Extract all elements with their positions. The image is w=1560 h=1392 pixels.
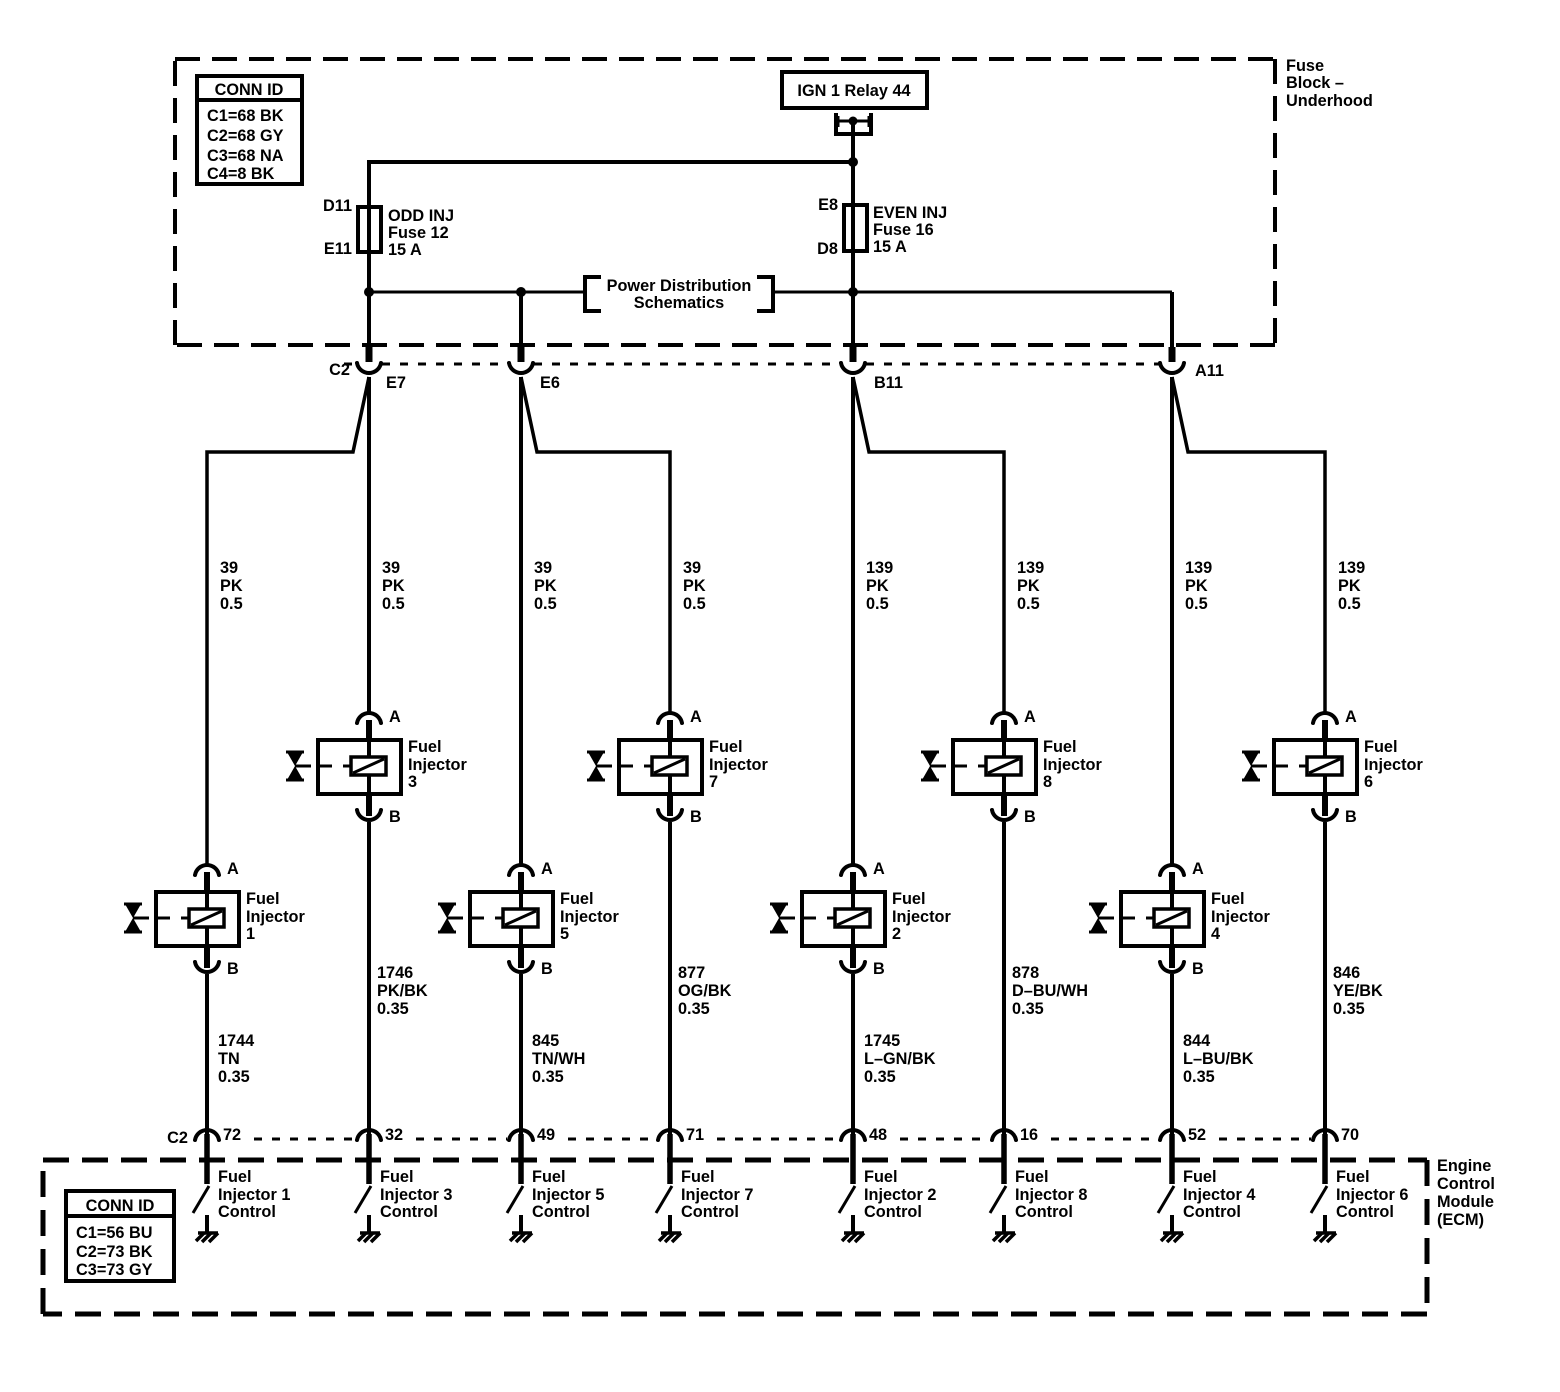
wire injector 4 control to ECM	[1170, 974, 1174, 1136]
ground (injector 7 driver)	[659, 1233, 681, 1242]
injector 4 driver lower contact	[1170, 1215, 1174, 1233]
svg-text:E7: E7	[386, 374, 406, 392]
svg-text:CONN ID: CONN ID	[215, 81, 284, 99]
fuse F16 EVEN INJ 15A	[817, 196, 947, 258]
wire label 877 OG/BK 0.35	[678, 964, 732, 1018]
svg-text:C4=8 BK: C4=8 BK	[207, 165, 275, 183]
label Engine Control Module (ECM)	[1437, 1157, 1495, 1229]
svg-text:0.35: 0.35	[532, 1068, 564, 1086]
wire label 139 PK 0.5 (col 6)	[1017, 559, 1044, 613]
svg-text:A: A	[389, 708, 401, 726]
svg-text:1746: 1746	[377, 964, 413, 982]
svg-text:E11: E11	[324, 240, 352, 258]
svg-text:Control: Control	[1015, 1203, 1073, 1221]
wire label 845 TN/WH 0.35	[532, 1032, 585, 1086]
svg-text:Control: Control	[380, 1203, 438, 1221]
svg-text:Control: Control	[681, 1203, 739, 1221]
wire B11 to injector 2	[851, 377, 855, 866]
fuel injector 3 name label	[408, 738, 467, 791]
svg-text:39: 39	[220, 559, 238, 577]
power distribution schematics reference brackets	[585, 277, 773, 312]
svg-text:C2: C2	[329, 361, 350, 379]
svg-text:877: 877	[678, 964, 705, 982]
fuel injector 7 pin A label	[690, 708, 702, 726]
svg-text:EVEN INJ: EVEN INJ	[873, 204, 947, 222]
svg-text:A: A	[873, 860, 885, 878]
svg-text:B: B	[389, 808, 401, 826]
wire label 1745 L–GN/BK 0.35	[864, 1032, 936, 1086]
svg-text:3: 3	[408, 773, 417, 791]
fuel injector 6 pin B label	[1345, 808, 1357, 826]
wire branch E7 to injector 1 column	[207, 377, 369, 866]
wire branch A11 to injector 6 column	[1172, 377, 1325, 714]
fuel injector 5 valve symbol	[438, 904, 463, 932]
svg-text:1745: 1745	[864, 1032, 900, 1050]
svg-text:Injector 2: Injector 2	[864, 1186, 936, 1204]
svg-text:1: 1	[246, 925, 255, 943]
injector 4 driver switch	[1158, 1186, 1174, 1213]
fuel injector 7 valve symbol	[587, 752, 612, 780]
svg-text:Fuel: Fuel	[380, 1168, 413, 1186]
svg-text:B: B	[1192, 960, 1204, 978]
svg-text:Injector: Injector	[408, 756, 467, 774]
fuel injector 8 pin B label	[1024, 808, 1036, 826]
conn id table (fuse block)	[197, 76, 302, 184]
svg-text:72: 72	[223, 1126, 241, 1144]
engine control module dashed border	[43, 1160, 1427, 1314]
fuel injector 3 pin B terminal	[357, 794, 381, 820]
ECM connector terminal pin 70	[1313, 1130, 1337, 1184]
fuel injector 1 valve symbol	[124, 904, 149, 932]
svg-text:L–GN/BK: L–GN/BK	[864, 1050, 936, 1068]
svg-text:C2=73 BK: C2=73 BK	[76, 1243, 153, 1261]
svg-text:0.35: 0.35	[1012, 1000, 1044, 1018]
svg-text:Module: Module	[1437, 1193, 1494, 1211]
svg-text:Fuel: Fuel	[892, 890, 925, 908]
svg-text:Injector 6: Injector 6	[1336, 1186, 1408, 1204]
fuel injector 4 pin B terminal	[1160, 946, 1184, 972]
fuel injector 2 name label	[892, 890, 951, 943]
svg-text:Injector 5: Injector 5	[532, 1186, 604, 1204]
svg-text:B: B	[690, 808, 702, 826]
svg-text:Block –: Block –	[1286, 74, 1344, 92]
wire relay to bus	[851, 121, 855, 292]
svg-text:Fuel: Fuel	[218, 1168, 251, 1186]
pin number 32	[385, 1126, 403, 1144]
wire branch E6 to injector 7 column	[521, 377, 670, 714]
svg-text:TN/WH: TN/WH	[532, 1050, 585, 1068]
pin label A11	[1195, 362, 1224, 380]
injector 7 driver lower contact	[668, 1215, 672, 1233]
fuel injector 7 pin B label	[690, 808, 702, 826]
ECM connector C2 dashed harness line (bottom)	[254, 1138, 1311, 1141]
connector terminal E6	[509, 363, 533, 373]
fuel injector 4 pin A label	[1192, 860, 1204, 878]
wire label 846 YE/BK 0.35	[1333, 964, 1383, 1018]
fuel injector 8 pin A terminal	[992, 713, 1016, 723]
wire drop to connector E6	[519, 292, 523, 362]
fuel injector 4 pin B label	[1192, 960, 1204, 978]
fuel injector 1 pin B label	[227, 960, 239, 978]
svg-text:A: A	[1345, 708, 1357, 726]
svg-text:Power Distribution: Power Distribution	[607, 277, 752, 295]
fuel injector 5 body	[470, 872, 553, 946]
injector 1 driver switch	[193, 1186, 209, 1213]
svg-text:Fuel: Fuel	[864, 1168, 897, 1186]
svg-text:C1=68 BK: C1=68 BK	[207, 107, 284, 125]
svg-text:B11: B11	[874, 374, 903, 392]
svg-text:844: 844	[1183, 1032, 1210, 1050]
fuel injector 2 valve symbol	[770, 904, 795, 932]
fuel injector 1 pin A terminal	[195, 865, 219, 875]
bus wire below fuses (power distribution)	[369, 291, 1172, 294]
svg-text:E8: E8	[818, 196, 838, 214]
svg-text:49: 49	[537, 1126, 555, 1144]
svg-text:0.5: 0.5	[866, 595, 889, 613]
svg-text:B: B	[873, 960, 885, 978]
svg-text:(ECM): (ECM)	[1437, 1211, 1484, 1229]
ground (injector 4 driver)	[1161, 1233, 1183, 1242]
node junction bus/fuse16	[848, 287, 858, 297]
wire label 39 PK 0.5 (col 2)	[382, 559, 405, 613]
wire top feed to fuse 12	[369, 162, 853, 292]
wire injector 3 control to ECM	[367, 822, 371, 1136]
fuel injector 7 body	[619, 720, 702, 794]
svg-text:Injector 3: Injector 3	[380, 1186, 452, 1204]
svg-text:8: 8	[1043, 773, 1052, 791]
svg-text:Injector: Injector	[1043, 756, 1102, 774]
connector C2 dashed harness line (top)	[344, 363, 1159, 366]
fuel injector 6 name label	[1364, 738, 1423, 791]
fuel injector 4 body	[1121, 872, 1204, 946]
svg-text:Engine: Engine	[1437, 1157, 1491, 1175]
svg-text:Control: Control	[1183, 1203, 1241, 1221]
svg-text:YE/BK: YE/BK	[1333, 982, 1383, 1000]
node junction bus/fuse12	[364, 287, 374, 297]
wire injector 8 control to ECM	[1002, 822, 1006, 1136]
wire label 1744 TN 0.35	[218, 1032, 254, 1086]
fuel injector 4 name label	[1211, 890, 1270, 943]
label Fuel Injector 6 Control	[1336, 1168, 1408, 1221]
fuel injector 6 pin B terminal	[1313, 794, 1337, 820]
svg-text:E6: E6	[540, 374, 560, 392]
ECM connector terminal pin 48	[841, 1130, 865, 1184]
fuel injector 3 pin B label	[389, 808, 401, 826]
svg-text:Fuel: Fuel	[709, 738, 742, 756]
ECM connector terminal pin 52	[1160, 1130, 1184, 1184]
svg-text:2: 2	[892, 925, 901, 943]
wire drop to connector E7	[367, 292, 371, 362]
fuel injector 2 body	[802, 872, 885, 946]
svg-text:39: 39	[382, 559, 400, 577]
wire drop to connector A11	[1170, 292, 1174, 362]
label Fuse Block - Underhood	[1286, 57, 1373, 110]
injector 3 driver switch	[355, 1186, 371, 1213]
wire injector 5 control to ECM	[519, 974, 523, 1136]
svg-text:15 A: 15 A	[388, 241, 422, 259]
ground (injector 5 driver)	[510, 1233, 532, 1242]
wire injector 6 control to ECM	[1323, 822, 1327, 1136]
connector terminal A11	[1160, 363, 1184, 373]
svg-text:PK: PK	[534, 577, 557, 595]
svg-text:6: 6	[1364, 773, 1373, 791]
svg-text:B: B	[1345, 808, 1357, 826]
wire injector 1 control to ECM	[205, 974, 209, 1136]
injector 2 driver switch	[839, 1186, 855, 1213]
svg-text:A: A	[227, 860, 239, 878]
pin label E6	[540, 374, 560, 392]
svg-text:0.5: 0.5	[1017, 595, 1040, 613]
fuel injector 2 pin B label	[873, 960, 885, 978]
svg-text:Injector: Injector	[892, 908, 951, 926]
relay K44 IGN 1 Relay 44 label box	[782, 72, 927, 108]
ground (injector 6 driver)	[1314, 1233, 1336, 1242]
fuel injector 8 pin A label	[1024, 708, 1036, 726]
fuel injector 1 pin A label	[227, 860, 239, 878]
svg-text:C3=73 GY: C3=73 GY	[76, 1261, 153, 1279]
fuel injector 5 name label	[560, 890, 619, 943]
svg-text:Fuel: Fuel	[560, 890, 593, 908]
svg-text:PK: PK	[1185, 577, 1208, 595]
svg-text:Injector 1: Injector 1	[218, 1186, 290, 1204]
injector 5 driver switch	[507, 1186, 523, 1213]
injector 6 driver lower contact	[1323, 1215, 1327, 1233]
svg-text:Injector: Injector	[1364, 756, 1423, 774]
svg-text:PK: PK	[1338, 577, 1361, 595]
svg-text:C1=56 BU: C1=56 BU	[76, 1224, 152, 1242]
fuel injector 7 pin A terminal	[658, 713, 682, 723]
fuel injector 4 pin A terminal	[1160, 865, 1184, 875]
label Fuel Injector 3 Control	[380, 1168, 452, 1221]
wire label 1746 PK/BK 0.35	[377, 964, 428, 1018]
fuel injector 1 pin B terminal	[195, 946, 219, 972]
fuel injector 6 pin A label	[1345, 708, 1357, 726]
ECM connector terminal pin 71	[658, 1130, 682, 1184]
ECM connector terminal pin 32	[357, 1130, 381, 1184]
wire A11 to injector 4	[1170, 377, 1174, 866]
svg-text:1744: 1744	[218, 1032, 254, 1050]
label C2 (top connector)	[329, 361, 350, 379]
connector terminal E7	[357, 363, 381, 373]
svg-text:39: 39	[534, 559, 552, 577]
svg-text:0.35: 0.35	[1183, 1068, 1215, 1086]
svg-text:71: 71	[686, 1126, 704, 1144]
svg-text:0.5: 0.5	[1185, 595, 1208, 613]
label Fuel Injector 1 Control	[218, 1168, 290, 1221]
pin label E7	[386, 374, 406, 392]
wire label 39 PK 0.5 (col 3)	[534, 559, 557, 613]
wire label 39 PK 0.5 (col 1)	[220, 559, 243, 613]
svg-text:Fuel: Fuel	[1336, 1168, 1369, 1186]
fuel injector 3 pin A label	[389, 708, 401, 726]
svg-text:139: 139	[1017, 559, 1044, 577]
label Fuel Injector 5 Control	[532, 1168, 604, 1221]
svg-text:Control: Control	[1336, 1203, 1394, 1221]
fuel injector 2 pin A label	[873, 860, 885, 878]
svg-text:139: 139	[1185, 559, 1212, 577]
conn id table (ECM)	[66, 1191, 174, 1281]
svg-text:52: 52	[1188, 1126, 1206, 1144]
svg-text:PK/BK: PK/BK	[377, 982, 428, 1000]
fuel injector 5 pin A terminal	[509, 865, 533, 875]
svg-text:Fuel: Fuel	[1183, 1168, 1216, 1186]
svg-text:TN: TN	[218, 1050, 240, 1068]
pin number 48	[869, 1126, 887, 1144]
fuel injector 5 pin B label	[541, 960, 553, 978]
svg-text:Injector: Injector	[246, 908, 305, 926]
fuel injector 2 pin A terminal	[841, 865, 865, 875]
svg-text:Fuel: Fuel	[681, 1168, 714, 1186]
fuel injector 1 body	[156, 872, 239, 946]
svg-text:Fuel: Fuel	[1211, 890, 1244, 908]
pin number 70	[1341, 1126, 1359, 1144]
svg-text:B: B	[1024, 808, 1036, 826]
injector 2 driver lower contact	[851, 1215, 855, 1233]
svg-text:C2=68 GY: C2=68 GY	[207, 127, 284, 145]
wire E6 to injector 5	[519, 377, 523, 866]
fuel injector 8 name label	[1043, 738, 1102, 791]
ECM connector terminal pin 49	[509, 1130, 533, 1184]
label Fuel Injector 8 Control	[1015, 1168, 1087, 1221]
svg-text:32: 32	[385, 1126, 403, 1144]
svg-text:Underhood: Underhood	[1286, 92, 1373, 110]
injector 6 driver switch	[1311, 1186, 1327, 1213]
fuel injector 4 valve symbol	[1089, 904, 1114, 932]
ground (injector 8 driver)	[993, 1233, 1015, 1242]
label Fuel Injector 2 Control	[864, 1168, 936, 1221]
fuse block underhood dashed border	[175, 59, 1275, 345]
ground (injector 1 driver)	[196, 1233, 218, 1242]
wire branch B11 to injector 8 column	[853, 377, 1004, 714]
svg-text:C3=68 NA: C3=68 NA	[207, 147, 284, 165]
wire injector 7 control to ECM	[668, 822, 672, 1136]
pin number 16	[1020, 1126, 1038, 1144]
svg-text:B: B	[541, 960, 553, 978]
svg-text:0.35: 0.35	[377, 1000, 409, 1018]
svg-text:7: 7	[709, 773, 718, 791]
injector 5 driver lower contact	[519, 1215, 523, 1233]
pin number 52	[1188, 1126, 1206, 1144]
svg-text:845: 845	[532, 1032, 559, 1050]
ground (injector 3 driver)	[358, 1233, 380, 1242]
injector 3 driver lower contact	[367, 1215, 371, 1233]
svg-text:0.35: 0.35	[1333, 1000, 1365, 1018]
pin number 72	[223, 1126, 241, 1144]
wire drop to connector B11	[851, 292, 855, 362]
fuel injector 8 pin B terminal	[992, 794, 1016, 820]
svg-text:Control: Control	[218, 1203, 276, 1221]
svg-text:39: 39	[683, 559, 701, 577]
svg-text:70: 70	[1341, 1126, 1359, 1144]
fuel injector 6 valve symbol	[1242, 752, 1267, 780]
svg-text:Schematics: Schematics	[634, 294, 725, 312]
svg-text:Injector: Injector	[560, 908, 619, 926]
injector 8 driver switch	[990, 1186, 1006, 1213]
svg-text:0.5: 0.5	[220, 595, 243, 613]
svg-text:0.5: 0.5	[534, 595, 557, 613]
svg-text:Fuel: Fuel	[532, 1168, 565, 1186]
svg-text:48: 48	[869, 1126, 887, 1144]
svg-text:4: 4	[1211, 925, 1220, 943]
wire label 139 PK 0.5 (col 7)	[1185, 559, 1212, 613]
svg-text:Fuse 12: Fuse 12	[388, 224, 449, 242]
wire label 39 PK 0.5 (col 4)	[683, 559, 706, 613]
svg-text:Injector: Injector	[709, 756, 768, 774]
fuel injector 6 pin A terminal	[1313, 713, 1337, 723]
relay K44 contact symbol	[836, 113, 871, 134]
injector 8 driver lower contact	[1002, 1215, 1006, 1233]
svg-text:Fuel: Fuel	[1015, 1168, 1048, 1186]
ECM connector terminal pin 16	[992, 1130, 1016, 1184]
svg-text:Control: Control	[864, 1203, 922, 1221]
svg-text:Fuse: Fuse	[1286, 57, 1324, 75]
wire injector 2 control to ECM	[851, 974, 855, 1136]
wire label 139 PK 0.5 (col 5)	[866, 559, 893, 613]
pin label B11	[874, 374, 903, 392]
svg-text:A: A	[1192, 860, 1204, 878]
svg-text:0.35: 0.35	[678, 1000, 710, 1018]
svg-text:Injector 7: Injector 7	[681, 1186, 753, 1204]
svg-text:PK: PK	[1017, 577, 1040, 595]
svg-text:A: A	[690, 708, 702, 726]
svg-text:B: B	[227, 960, 239, 978]
svg-text:PK: PK	[866, 577, 889, 595]
fuel injector 3 pin A terminal	[357, 713, 381, 723]
fuel injector 5 pin B terminal	[509, 946, 533, 972]
fuse F12 ODD INJ 15A	[323, 197, 454, 259]
fuel injector 5 pin A label	[541, 860, 553, 878]
fuel injector 7 pin B terminal	[658, 794, 682, 820]
fuel injector 2 pin B terminal	[841, 946, 865, 972]
svg-text:15 A: 15 A	[873, 238, 907, 256]
fuel injector 6 body	[1274, 720, 1357, 794]
fuel injector 3 valve symbol	[286, 752, 311, 780]
svg-text:0.5: 0.5	[382, 595, 405, 613]
svg-text:Injector 4: Injector 4	[1183, 1186, 1255, 1204]
svg-text:Fuel: Fuel	[1364, 738, 1397, 756]
svg-text:PK: PK	[382, 577, 405, 595]
fuel injector 1 name label	[246, 890, 305, 943]
svg-text:Control: Control	[1437, 1175, 1495, 1193]
svg-text:IGN 1 Relay 44: IGN 1 Relay 44	[797, 82, 910, 100]
svg-text:D8: D8	[817, 240, 838, 258]
svg-text:0.5: 0.5	[1338, 595, 1361, 613]
svg-text:ODD INJ: ODD INJ	[388, 207, 454, 225]
svg-text:0.35: 0.35	[218, 1068, 250, 1086]
label Fuel Injector 4 Control	[1183, 1168, 1255, 1221]
connector terminal B11	[841, 363, 865, 373]
wire label 844 L–BU/BK 0.35	[1183, 1032, 1254, 1086]
fuel injector 8 body	[953, 720, 1036, 794]
svg-text:846: 846	[1333, 964, 1360, 982]
svg-text:5: 5	[560, 925, 569, 943]
pin number 71	[686, 1126, 704, 1144]
svg-text:0.35: 0.35	[864, 1068, 896, 1086]
svg-text:Injector 8: Injector 8	[1015, 1186, 1087, 1204]
svg-text:0.5: 0.5	[683, 595, 706, 613]
ECM connector terminal pin 72	[195, 1130, 219, 1184]
svg-text:PK: PK	[220, 577, 243, 595]
node junction relay/fuse12 feed	[848, 157, 858, 167]
svg-text:A: A	[1024, 708, 1036, 726]
svg-text:OG/BK: OG/BK	[678, 982, 732, 1000]
wire E7 to injector 3	[367, 377, 371, 714]
svg-text:139: 139	[866, 559, 893, 577]
fuel injector 3 body	[318, 720, 401, 794]
svg-text:139: 139	[1338, 559, 1365, 577]
svg-text:CONN ID: CONN ID	[86, 1197, 155, 1215]
label Fuel Injector 7 Control	[681, 1168, 753, 1221]
